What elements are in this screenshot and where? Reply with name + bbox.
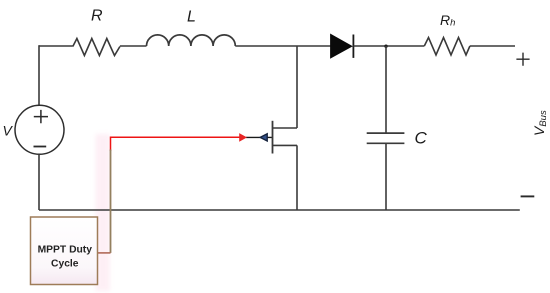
- resistor R: [73, 39, 120, 56]
- MOSFET Q1 source horizontal: [273, 144, 298, 146]
- red control wire horizontal: [111, 137, 240, 151]
- svg-text:Cycle: Cycle: [51, 258, 79, 269]
- svg-text:L: L: [187, 9, 196, 26]
- MOSFET Q1 gate bar: [272, 121, 274, 154]
- resistor Rh: [424, 38, 470, 56]
- capacitor C top wire: [385, 46, 387, 133]
- wire Rh to + terminal: [470, 45, 515, 47]
- svg-text:V: V: [3, 123, 14, 139]
- wire L to diode: [235, 45, 330, 47]
- - output terminal: [521, 195, 535, 197]
- + output terminal: [516, 53, 529, 66]
- bottom wire: [39, 209, 520, 211]
- junction node at diode/capacitor tap: [384, 45, 387, 48]
- tan connector hook to box: [98, 252, 111, 254]
- red arrowhead: [240, 134, 246, 141]
- wire top-left horizontal: [39, 45, 73, 47]
- tan connector vertical from MPPT: [110, 150, 112, 253]
- svg-text:R: R: [91, 8, 103, 25]
- MOSFET Q1 drain wire: [296, 46, 298, 128]
- capacitor C plates: [367, 133, 405, 143]
- diode D1 triangle: [331, 34, 352, 58]
- inductor L: [147, 35, 236, 46]
- svg-text:VBus: VBus: [531, 110, 549, 136]
- wire between R and L: [120, 45, 147, 47]
- wire diode to Rh: [354, 45, 425, 47]
- svg-text:Rh: Rh: [440, 12, 455, 29]
- MOSFET Q1 source wire: [296, 145, 298, 210]
- svg-text:MPPT Duty: MPPT Duty: [38, 244, 93, 255]
- MOSFET Q1 drain horizontal: [273, 127, 298, 129]
- diode D1 cathode bar: [352, 35, 354, 58]
- wire left vertical top: [38, 45, 40, 105]
- svg-text:C: C: [415, 129, 428, 148]
- wire left vertical bottom: [38, 154, 40, 210]
- voltage source V: [15, 105, 64, 154]
- - mark inside source: [34, 146, 47, 148]
- capacitor C bottom wire: [385, 143, 387, 210]
- gate lead wire: [246, 136, 272, 138]
- + mark inside source: [34, 110, 48, 123]
- navy arrowhead at gate: [260, 134, 267, 141]
